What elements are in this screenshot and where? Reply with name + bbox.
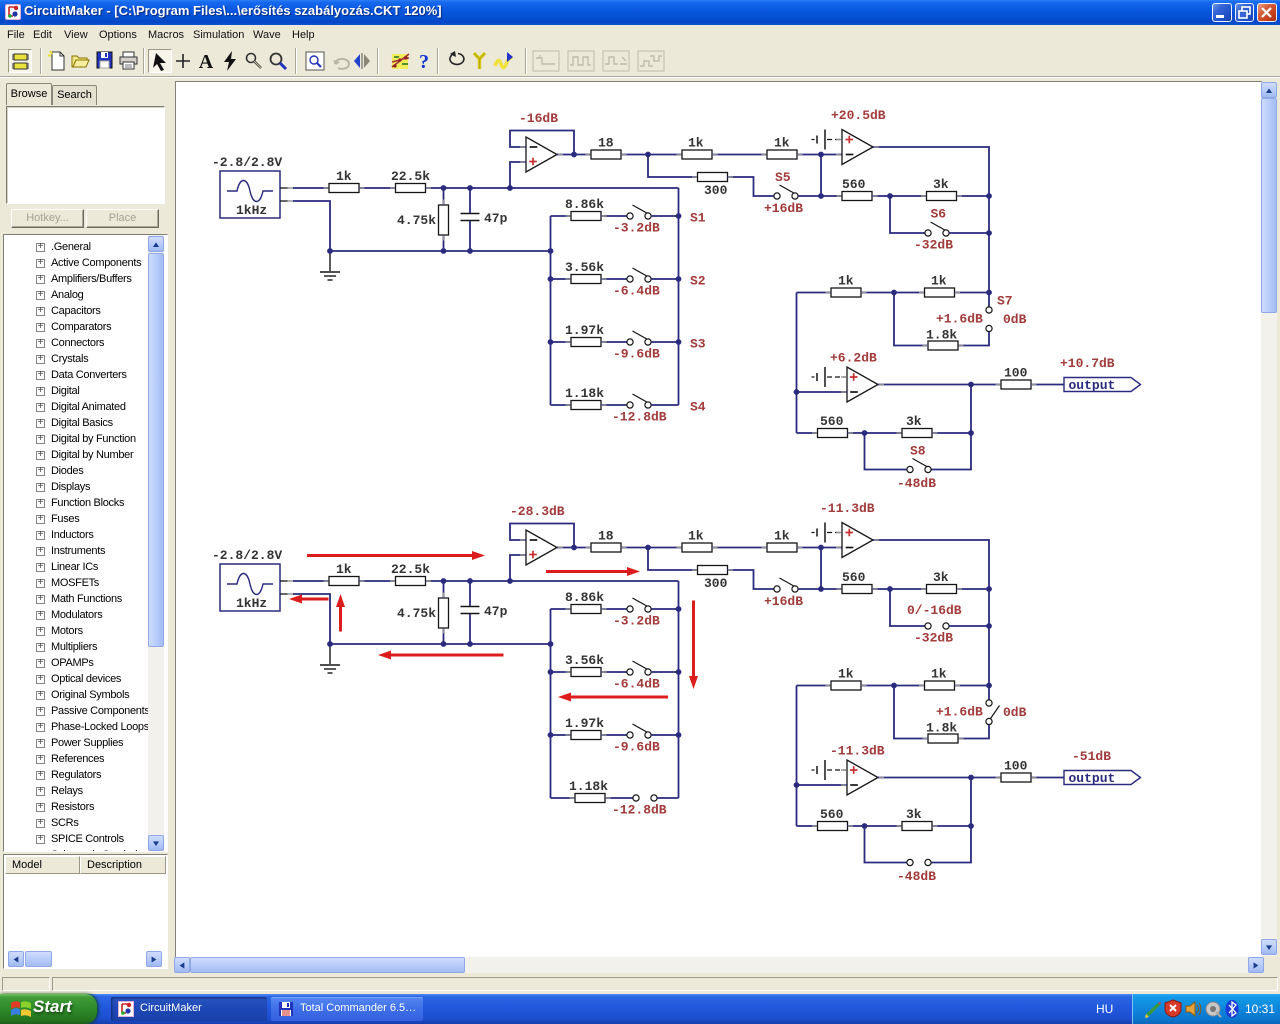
component pin ticks bbox=[288, 140, 1037, 827]
node junction bbox=[862, 823, 868, 829]
node junction bbox=[818, 193, 824, 199]
wire bbox=[551, 608, 572, 610]
svg-text:100: 100 bbox=[1004, 758, 1028, 773]
wire bbox=[873, 540, 989, 700]
svg-text:560: 560 bbox=[842, 570, 866, 585]
switch S3 bbox=[627, 331, 651, 345]
ground bbox=[320, 251, 340, 280]
resistor R5 1k bbox=[682, 135, 712, 159]
resistor R8 560 bbox=[842, 177, 872, 201]
wire bbox=[605, 797, 633, 799]
node junction bbox=[887, 193, 893, 199]
wire bbox=[330, 250, 551, 252]
svg-text:560: 560 bbox=[842, 177, 866, 192]
wire bbox=[890, 196, 925, 233]
node junction bbox=[794, 389, 800, 395]
wire bbox=[510, 555, 526, 581]
svg-text:+1.6dB: +1.6dB bbox=[936, 705, 983, 720]
wire bbox=[878, 777, 1001, 779]
svg-text:S7: S7 bbox=[997, 294, 1013, 309]
switch S2 bbox=[627, 268, 651, 282]
switch S5 bbox=[774, 185, 798, 199]
wire bbox=[601, 341, 627, 343]
op-amp U2b bbox=[842, 523, 873, 558]
svg-text:300: 300 bbox=[704, 183, 728, 198]
node junction bbox=[968, 382, 974, 388]
node junction bbox=[676, 732, 682, 738]
node junction bbox=[441, 248, 447, 254]
wire bbox=[443, 235, 445, 251]
wire bbox=[651, 404, 678, 406]
switch S1 bbox=[627, 205, 651, 219]
node junction bbox=[968, 430, 974, 436]
wire bbox=[798, 588, 821, 590]
node junction bbox=[467, 578, 473, 584]
svg-text:0/-16dB: 0/-16dB bbox=[907, 603, 962, 618]
svg-text:-48dB: -48dB bbox=[897, 869, 936, 884]
red flow arrow bbox=[558, 693, 668, 702]
wire bbox=[551, 215, 572, 217]
wire bbox=[601, 278, 627, 280]
svg-text:1kHz: 1kHz bbox=[236, 203, 267, 218]
wire bbox=[894, 293, 928, 346]
output flag bbox=[1064, 771, 1141, 787]
wire bbox=[550, 609, 552, 798]
op-amp U2 bbox=[842, 130, 873, 165]
wire bbox=[894, 686, 928, 739]
wire bbox=[551, 341, 572, 343]
svg-text:560: 560 bbox=[820, 807, 844, 822]
node junction bbox=[548, 732, 554, 738]
wire bbox=[712, 154, 767, 156]
svg-text:-32dB: -32dB bbox=[914, 238, 953, 253]
svg-text:-32dB: -32dB bbox=[914, 631, 953, 646]
svg-text:0dB: 0dB bbox=[1003, 312, 1027, 327]
resistor R7 300 bbox=[698, 566, 728, 575]
node junction bbox=[548, 339, 554, 345]
svg-text:3k: 3k bbox=[933, 570, 949, 585]
svg-text:output: output bbox=[1069, 378, 1116, 393]
wire bbox=[820, 548, 822, 590]
switch S4 bbox=[627, 394, 651, 408]
resistor R4 18 bbox=[591, 528, 621, 552]
wire bbox=[601, 734, 627, 736]
resistor R6 1k bbox=[767, 528, 797, 552]
wire bbox=[551, 404, 572, 406]
svg-text:1.8k: 1.8k bbox=[926, 328, 957, 343]
wire bbox=[861, 685, 925, 687]
svg-text:-16dB: -16dB bbox=[519, 111, 558, 126]
svg-text:18: 18 bbox=[598, 135, 614, 150]
svg-text:47p: 47p bbox=[484, 211, 508, 226]
output flag bbox=[1064, 378, 1141, 394]
node junction bbox=[645, 152, 651, 158]
switch S3 bbox=[627, 724, 651, 738]
node junction bbox=[676, 606, 682, 612]
node junction bbox=[986, 230, 992, 236]
svg-text:3k: 3k bbox=[906, 807, 922, 822]
red flow arrow bbox=[307, 551, 485, 560]
wire bbox=[657, 797, 678, 799]
switch S6 bbox=[925, 623, 949, 629]
svg-text:-3.2dB: -3.2dB bbox=[613, 221, 660, 236]
resistor R11 1k bbox=[925, 273, 955, 297]
wire bbox=[510, 131, 574, 155]
node junction bbox=[548, 248, 554, 254]
resistor R11 1k bbox=[925, 666, 955, 690]
wire bbox=[469, 581, 471, 606]
svg-text:22.5k: 22.5k bbox=[391, 169, 430, 184]
node junction bbox=[862, 430, 868, 436]
node junction bbox=[441, 641, 447, 647]
svg-text:3.56k: 3.56k bbox=[565, 260, 604, 275]
wire bbox=[443, 581, 445, 598]
svg-text:1k: 1k bbox=[931, 273, 947, 288]
svg-text:1k: 1k bbox=[774, 528, 790, 543]
wire bbox=[890, 589, 925, 626]
node junction bbox=[467, 185, 473, 191]
wire bbox=[932, 825, 971, 827]
wire bbox=[798, 195, 821, 197]
wire bbox=[426, 187, 679, 189]
svg-text:1.18k: 1.18k bbox=[569, 779, 608, 794]
capacitor C1 47p bbox=[461, 214, 480, 221]
wire bbox=[443, 188, 445, 205]
switch S1 bbox=[627, 598, 651, 612]
node junction bbox=[327, 641, 333, 647]
resistor R5 1k bbox=[682, 528, 712, 552]
wire bbox=[557, 154, 591, 156]
svg-text:4.75k: 4.75k bbox=[397, 213, 436, 228]
wire bbox=[621, 547, 682, 549]
wire bbox=[821, 195, 842, 197]
svg-text:1k: 1k bbox=[688, 528, 704, 543]
svg-text:1k: 1k bbox=[838, 273, 854, 288]
node junction bbox=[507, 185, 513, 191]
op-amp U1b bbox=[526, 530, 557, 565]
op-amp U3b bbox=[847, 760, 878, 795]
resistor R12 1.8k bbox=[928, 341, 958, 350]
wire bbox=[949, 625, 989, 627]
svg-text:+16dB: +16dB bbox=[764, 201, 803, 216]
wire bbox=[359, 580, 396, 582]
svg-text:-9.6dB: -9.6dB bbox=[613, 740, 660, 755]
wire bbox=[712, 547, 767, 549]
svg-text:-3.2dB: -3.2dB bbox=[613, 614, 660, 629]
red flow arrow bbox=[336, 594, 345, 632]
wire bbox=[510, 524, 574, 548]
op-amp U3 bbox=[847, 367, 878, 402]
wire bbox=[651, 608, 678, 610]
wire bbox=[293, 594, 330, 644]
wire bbox=[621, 154, 682, 156]
red flow arrow bbox=[378, 651, 504, 660]
svg-text:+10.7dB: +10.7dB bbox=[1060, 356, 1115, 371]
node junction bbox=[676, 276, 682, 282]
node junction bbox=[891, 290, 897, 296]
wire bbox=[550, 216, 552, 405]
wire bbox=[931, 778, 971, 863]
wire bbox=[865, 826, 907, 863]
svg-text:S5: S5 bbox=[775, 170, 791, 185]
svg-text:47p: 47p bbox=[484, 604, 508, 619]
red flow arrow bbox=[546, 567, 640, 576]
node junction bbox=[548, 276, 554, 282]
switch S7 bbox=[986, 700, 1000, 725]
resistor R2 22.5k bbox=[391, 562, 430, 586]
node junction bbox=[645, 545, 651, 551]
wire bbox=[797, 685, 832, 687]
wire bbox=[797, 547, 842, 549]
resistor R3 4.75k bbox=[439, 598, 449, 628]
svg-text:S1: S1 bbox=[690, 211, 706, 226]
svg-text:18: 18 bbox=[598, 528, 614, 543]
wire bbox=[651, 341, 678, 343]
resistor R2 22.5k bbox=[391, 169, 430, 193]
svg-text:0dB: 0dB bbox=[1003, 705, 1027, 720]
voltage source V1 sine 1kHz bbox=[212, 155, 282, 218]
svg-text:+20.5dB: +20.5dB bbox=[831, 108, 886, 123]
wire bbox=[678, 188, 680, 405]
svg-text:300: 300 bbox=[704, 576, 728, 591]
resistor R6 1k bbox=[767, 135, 797, 159]
wire bbox=[601, 671, 627, 673]
resistor R16 8.86k bbox=[571, 605, 601, 614]
resistor R3 4.75k bbox=[439, 205, 449, 235]
wire bbox=[469, 221, 471, 251]
svg-text:-28.3dB: -28.3dB bbox=[510, 504, 565, 519]
wire bbox=[820, 155, 822, 197]
node junction bbox=[507, 578, 513, 584]
wire bbox=[797, 292, 832, 294]
op-amp U1 bbox=[526, 137, 557, 172]
wire bbox=[551, 671, 572, 673]
wire bbox=[797, 432, 818, 434]
wire bbox=[796, 686, 798, 827]
svg-text:S6: S6 bbox=[931, 207, 947, 222]
svg-text:1k: 1k bbox=[838, 666, 854, 681]
node junction bbox=[676, 339, 682, 345]
svg-text:3.56k: 3.56k bbox=[565, 653, 604, 668]
node junction bbox=[891, 683, 897, 689]
voltage source V2 sine 1kHz bbox=[212, 548, 282, 611]
resistor R18 1.97k bbox=[571, 338, 601, 347]
svg-text:560: 560 bbox=[820, 414, 844, 429]
node junction bbox=[467, 641, 473, 647]
resistor R10 1k bbox=[831, 273, 861, 297]
resistor R17 3.56k bbox=[571, 668, 601, 677]
svg-text:-6.4dB: -6.4dB bbox=[613, 677, 660, 692]
ground (analog common) bbox=[817, 130, 825, 150]
wire bbox=[510, 162, 526, 188]
wire bbox=[359, 187, 396, 189]
node junction bbox=[818, 152, 824, 158]
wire bbox=[848, 825, 903, 827]
svg-text:?: ? bbox=[419, 51, 429, 72]
resistor R7 300 bbox=[698, 173, 728, 182]
wire bbox=[651, 215, 678, 217]
wire bbox=[728, 177, 774, 196]
resistor R15 3k bbox=[902, 807, 932, 831]
red flow arrow bbox=[289, 595, 329, 604]
wire bbox=[872, 588, 927, 590]
node junction bbox=[968, 823, 974, 829]
resistor R10 1k bbox=[831, 666, 861, 690]
wire bbox=[932, 432, 971, 434]
red flow arrow bbox=[689, 601, 698, 690]
svg-text:-2.8/2.8V: -2.8/2.8V bbox=[212, 155, 282, 170]
ground (analog common) bbox=[817, 760, 825, 780]
svg-text:1.8k: 1.8k bbox=[926, 721, 957, 736]
svg-text:-12.8dB: -12.8dB bbox=[612, 410, 667, 425]
wire bbox=[651, 278, 678, 280]
node junction bbox=[986, 623, 992, 629]
wire bbox=[648, 548, 698, 571]
svg-text:S8: S8 bbox=[910, 444, 926, 459]
svg-text:3k: 3k bbox=[906, 414, 922, 429]
wire bbox=[797, 154, 842, 156]
svg-text:1k: 1k bbox=[774, 135, 790, 150]
wire bbox=[469, 614, 471, 644]
node junction bbox=[676, 669, 682, 675]
svg-text:3k: 3k bbox=[933, 177, 949, 192]
wire bbox=[551, 278, 572, 280]
switch S6 bbox=[925, 222, 949, 236]
svg-text:22.5k: 22.5k bbox=[391, 562, 430, 577]
wire bbox=[955, 685, 990, 687]
svg-text:-48dB: -48dB bbox=[897, 476, 936, 491]
wire bbox=[797, 784, 848, 786]
wire bbox=[958, 332, 989, 346]
svg-text:1k: 1k bbox=[931, 666, 947, 681]
svg-text:S4: S4 bbox=[690, 400, 706, 415]
node junction bbox=[986, 683, 992, 689]
ground (analog common) bbox=[817, 523, 825, 543]
node junction bbox=[441, 185, 447, 191]
node junction bbox=[571, 152, 577, 158]
svg-text:+1.6dB: +1.6dB bbox=[936, 312, 983, 327]
resistor R1 1k bbox=[329, 562, 359, 586]
svg-text:-11.3dB: -11.3dB bbox=[820, 501, 875, 516]
wire bbox=[651, 671, 678, 673]
node junction bbox=[794, 782, 800, 788]
wire bbox=[551, 797, 576, 799]
resistor R15 3k bbox=[902, 414, 932, 438]
svg-text:-51dB: -51dB bbox=[1072, 749, 1111, 764]
wire bbox=[1031, 777, 1064, 779]
resistor R9 3k bbox=[927, 570, 957, 594]
svg-text:-11.3dB: -11.3dB bbox=[830, 744, 885, 759]
node junction bbox=[986, 290, 992, 296]
svg-text:100: 100 bbox=[1004, 365, 1028, 380]
wire bbox=[949, 232, 989, 234]
wire bbox=[958, 725, 989, 739]
wire bbox=[797, 391, 848, 393]
svg-text:+6.2dB: +6.2dB bbox=[830, 351, 877, 366]
svg-text:-9.6dB: -9.6dB bbox=[613, 347, 660, 362]
switch S8 bbox=[907, 859, 931, 865]
resistor R12 1.8k bbox=[928, 734, 958, 743]
svg-text:output: output bbox=[1069, 771, 1116, 786]
wire bbox=[601, 404, 627, 406]
svg-text:4.75k: 4.75k bbox=[397, 606, 436, 621]
wire bbox=[469, 188, 471, 213]
node junction bbox=[571, 545, 577, 551]
svg-text:1.97k: 1.97k bbox=[565, 716, 604, 731]
wire bbox=[648, 155, 698, 178]
wire bbox=[426, 580, 679, 582]
wire bbox=[651, 734, 678, 736]
capacitor C1 47p bbox=[461, 607, 480, 614]
resistor R13 100 bbox=[1001, 758, 1031, 782]
switch S4 bbox=[633, 795, 657, 801]
wire bbox=[293, 187, 329, 189]
wire bbox=[678, 581, 680, 798]
node junction bbox=[441, 578, 447, 584]
node junction bbox=[548, 669, 554, 675]
svg-text:A: A bbox=[199, 51, 214, 72]
wire bbox=[557, 547, 591, 549]
svg-text:+16dB: +16dB bbox=[764, 594, 803, 609]
svg-text:1.97k: 1.97k bbox=[565, 323, 604, 338]
svg-text:1k: 1k bbox=[688, 135, 704, 150]
ground bbox=[320, 644, 340, 673]
wire bbox=[293, 201, 330, 251]
wire bbox=[872, 195, 927, 197]
resistor R14 560 bbox=[818, 807, 848, 831]
node junction bbox=[986, 193, 992, 199]
resistor R19 1.18k bbox=[571, 401, 601, 410]
svg-text:1k: 1k bbox=[336, 562, 352, 577]
node junction bbox=[887, 586, 893, 592]
switch S7 bbox=[986, 307, 992, 332]
wire bbox=[293, 580, 329, 582]
resistor R18 1.97k bbox=[571, 731, 601, 740]
wire bbox=[957, 588, 990, 590]
svg-text:1k: 1k bbox=[336, 169, 352, 184]
node junction bbox=[818, 586, 824, 592]
resistor R9 3k bbox=[927, 177, 957, 201]
wire bbox=[796, 293, 798, 434]
resistor R19 1.18k bbox=[575, 794, 605, 803]
resistor R8 560 bbox=[842, 570, 872, 594]
svg-text:S2: S2 bbox=[690, 274, 706, 289]
wire bbox=[957, 195, 990, 197]
svg-text:8.86k: 8.86k bbox=[565, 590, 604, 605]
wire bbox=[878, 384, 1001, 386]
wire bbox=[861, 292, 925, 294]
resistor R17 3.56k bbox=[571, 275, 601, 284]
wire bbox=[821, 588, 842, 590]
node junction bbox=[968, 775, 974, 781]
wire bbox=[865, 433, 907, 470]
svg-text:-12.8dB: -12.8dB bbox=[612, 803, 667, 818]
node junction bbox=[818, 545, 824, 551]
wire bbox=[601, 608, 627, 610]
node junction bbox=[986, 586, 992, 592]
svg-text:1.18k: 1.18k bbox=[565, 386, 604, 401]
svg-text:S3: S3 bbox=[690, 337, 706, 352]
wire bbox=[728, 570, 774, 589]
ground (analog common) bbox=[817, 367, 825, 387]
wire bbox=[443, 628, 445, 644]
node junction bbox=[676, 213, 682, 219]
wire bbox=[330, 643, 551, 645]
node junction bbox=[548, 641, 554, 647]
resistor R1 1k bbox=[329, 169, 359, 193]
switch S2 bbox=[627, 661, 651, 675]
wire bbox=[601, 215, 627, 217]
